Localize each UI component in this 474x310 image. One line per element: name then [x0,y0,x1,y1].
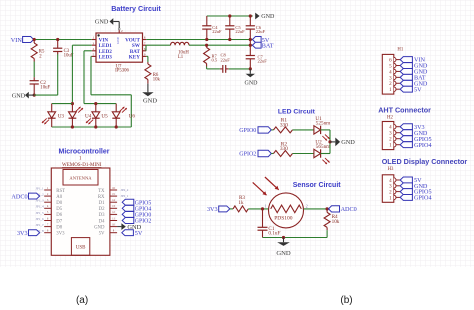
ground flag below R6 [147,84,149,93]
svg-text:JP2_2: JP2_2 [121,188,129,192]
junction sensor gnd [282,236,285,239]
wire C2 gnd to C3 bottom [34,94,58,96]
H1 pin 6 [394,57,396,61]
svg-text:LED Circuit: LED Circuit [278,108,316,115]
svg-text:3V3: 3V3 [56,232,65,237]
svg-text:ADC0: ADC0 [11,193,27,200]
svg-text:OLED Display Connector: OLED Display Connector [382,157,468,166]
wire PDS100 pin2 to ADC0 [304,208,329,210]
junction C6 at 5V row [249,38,252,41]
capacitor C2 [33,77,35,81]
svg-text:10k: 10k [332,219,340,225]
wire sensor bottom rail [326,230,328,237]
junction at C2/GND [33,94,36,97]
net port GPIO4 at H3 pin 1 [400,194,412,200]
svg-text:JP1_5: JP1_5 [36,211,44,215]
net port GPIO4 at H2 pin 1 [400,142,412,148]
wire KEY to R6 [146,55,148,57]
photoresistor PDS100 [269,193,304,228]
net port GPIO4 at MCU [122,205,134,211]
H1 pin 3 [394,75,396,79]
MCU antenna box [63,170,98,186]
wire LED1 net [72,44,91,46]
junction U6 cathode [115,125,118,128]
connector H1 body [382,54,394,94]
svg-text:Microcontroller: Microcontroller [59,148,110,155]
svg-text:L1: L1 [178,55,184,60]
svg-text:GND: GND [341,139,355,146]
svg-text:H3: H3 [388,167,394,172]
ground flag at MCU GND pin [117,226,121,228]
inductor L1 [171,42,189,45]
svg-text:22uF: 22uF [256,29,266,34]
H2 pin 1 [394,143,396,147]
LED U4 [71,104,73,112]
svg-text:GPIO4: GPIO4 [414,142,432,149]
LED U6 [115,104,117,112]
svg-text:3V3: 3V3 [207,206,218,213]
net port GND at H3 pin 3 [400,183,412,189]
H3 pin 3 [394,184,396,188]
net port ADC0 sensor [329,206,340,212]
svg-text:GND: GND [12,93,26,100]
svg-text:GPIO4: GPIO4 [414,195,432,202]
MCU usb box [71,238,89,256]
svg-text:A0: A0 [56,195,62,200]
net port VIN at H1 pin 6 [400,57,412,63]
svg-text:U5: U5 [101,114,108,120]
svg-text:JP1_1: JP1_1 [36,186,44,190]
light arrows into PDS100 [253,182,267,195]
connector H3 body [382,175,394,203]
svg-text:22uF: 22uF [212,29,222,34]
svg-text:1: 1 [265,204,267,208]
svg-text:1k: 1k [238,200,244,206]
H1 pin 2 [394,81,396,85]
junction R7 top [205,44,208,47]
svg-text:D3: D3 [99,213,105,218]
wire cathode rail [52,126,132,128]
svg-text:D1: D1 [99,201,105,206]
svg-text:330: 330 [280,123,288,129]
wire VIN to U7.VIN [34,39,92,41]
wire LED gnd rail [329,130,331,154]
net port 5V [252,37,261,43]
junction U3/U4 anodes [71,102,74,105]
wire U1 cathode [321,129,330,131]
svg-text:GND: GND [95,19,109,26]
wire LED3 net [90,55,93,57]
svg-text:TX: TX [98,189,105,194]
svg-text:22uF: 22uF [221,57,231,62]
wire R7 to C8 [206,67,208,69]
resistor R4 [326,209,328,213]
junction LED gnd [328,140,331,143]
wire 3V3 to R3 [230,208,233,210]
svg-text:BAT: BAT [262,43,274,50]
junction at C3 top [56,38,59,41]
svg-text:Sensor Circuit: Sensor Circuit [293,182,342,189]
net port BAT at H1 pin 3 [400,74,412,80]
ground flag top right [255,13,259,20]
wire LED2 net [84,50,92,52]
H3 pin 4 [394,178,396,182]
svg-text:5V: 5V [99,232,105,237]
wire U2 cathode [321,153,330,155]
svg-text:KEY: KEY [129,54,140,60]
ground flag at C2 [29,94,34,96]
H1 pin 1 [394,87,396,91]
junction U4 cathode [71,125,74,128]
svg-text:10uF: 10uF [40,85,50,90]
wire GPIO2 to R2 [271,153,273,155]
svg-text:D6: D6 [56,213,62,218]
wire BAT pin link [145,45,147,51]
ground flag LED circuit [330,141,335,143]
wire C8 to C7 bottom [229,68,251,70]
junction pin2/R4 [326,207,329,210]
net port 5V at MCU [122,230,134,236]
net port GND at H2 pin 3 [400,130,412,136]
svg-text:D8: D8 [56,225,62,230]
svg-text:ADC0: ADC0 [341,206,357,213]
svg-text:JP1_4: JP1_4 [36,205,44,209]
wire rail U3 anode [52,103,73,105]
IC U7 IP5306 body [96,33,143,62]
capacitor C8 [222,65,224,73]
capacitor C1 [262,209,264,227]
svg-text:GND: GND [94,225,105,230]
svg-text:GND: GND [276,250,291,257]
LED U2 [314,149,321,157]
H2 pin 2 [394,137,396,141]
junction C5 bottom [228,38,231,41]
svg-text:GND: GND [143,97,157,104]
wire SW to L1 [146,44,170,46]
H2 pin 4 [394,125,396,129]
svg-text:GND: GND [116,36,120,43]
wire L1 to BAT port [189,44,252,46]
svg-text:AHT Connector: AHT Connector [378,105,431,114]
svg-text:JP1_7: JP1_7 [36,223,44,227]
svg-text:D7: D7 [56,219,62,224]
svg-text:D5: D5 [56,207,62,212]
resistor R6 [147,62,149,64]
svg-text:GPIO2: GPIO2 [239,152,256,158]
svg-text:D2: D2 [99,207,105,212]
junction C6/C7 [249,44,252,47]
svg-text:LED3: LED3 [99,54,113,60]
net port GPIO5 at H3 pin 2 [400,189,412,195]
H2 pin 3 [394,131,396,135]
net port GPIO5 at MCU [122,199,134,205]
svg-text:3V3: 3V3 [17,230,28,237]
svg-text:GPIO0: GPIO0 [135,213,152,219]
junction C5 top [228,14,231,17]
net port 5V at H3 pin 4 [400,177,412,183]
ground flag sensor [283,238,285,243]
svg-text:ANTENNA: ANTENNA [69,176,92,181]
capacitor C3 [57,40,59,49]
svg-text:0.1uF: 0.1uF [268,231,280,237]
svg-text:10k: 10k [153,78,161,83]
junction U5 anode [94,102,97,105]
connector H2 body [382,122,394,150]
resistor R7 [206,45,208,47]
junction at VIN/R5 [33,38,36,41]
net port GPIO0 at MCU [122,211,134,217]
svg-text:2: 2 [306,204,308,208]
svg-text:22uF: 22uF [258,59,268,64]
svg-text:(b): (b) [340,295,352,305]
svg-text:5V: 5V [414,86,422,93]
MCU left pins [44,189,51,191]
svg-text:GND: GND [245,81,259,87]
U7 right pins [143,39,147,41]
svg-text:5V: 5V [135,230,143,237]
svg-text:VIN: VIN [11,37,23,44]
capacitor C6 [249,16,251,26]
MCU right pins [110,189,117,191]
net port GND at H1 pin 2 [400,80,412,86]
net port GND at H1 pin 4 [400,68,412,74]
svg-text:0.5: 0.5 [212,58,218,63]
svg-text:525nm: 525nm [316,121,330,127]
resistor R3 [233,206,248,212]
junction C4 bottom [205,38,208,41]
H1 pin 5 [394,63,396,67]
svg-text:U3: U3 [58,114,65,120]
MCU U1 WEMOS D1 mini body [51,168,110,255]
svg-text:USB: USB [76,246,86,251]
wire GPIO0 to R1 [271,129,273,131]
svg-text:JP2_1: JP2_1 [121,194,129,198]
junction U5 cathode [94,125,97,128]
svg-text:JP1_6: JP1_6 [36,217,44,221]
U7 left pins [92,39,96,41]
svg-text:Battery Circuit: Battery Circuit [111,4,161,13]
svg-text:GPIO0: GPIO0 [239,128,256,134]
resistor R2 [274,151,293,157]
net port 5V at H1 pin 1 [400,86,412,92]
net port GND at H1 pin 5 [400,63,412,69]
svg-text:D0: D0 [56,201,62,206]
LED U5 [95,104,97,112]
svg-text:PDS100: PDS100 [274,215,293,221]
svg-text:H1: H1 [397,48,403,53]
ground flag below C7 [249,69,251,74]
capacitor C7 [249,45,251,55]
svg-text:330: 330 [280,146,288,152]
svg-text:GPIO4: GPIO4 [135,206,152,212]
svg-text:U6: U6 [129,114,136,120]
capacitor C4 [206,16,208,26]
wire R1 to U1 [293,129,314,131]
LED U1 [314,126,321,134]
net port GPIO2 at MCU [122,218,134,224]
junction R3/C1 [261,207,264,210]
svg-text:565nm: 565nm [316,144,330,150]
gnd rail top [207,15,253,17]
LED U3 [51,104,53,112]
svg-text:(a): (a) [76,295,88,305]
junction C7 bottom [249,67,252,70]
H3 pin 1 [394,195,396,199]
wire R2 to U2 [293,153,314,155]
H3 pin 2 [394,189,396,193]
resistor R5 [33,40,35,44]
wire R3 to PDS100 pin1 [248,208,268,210]
wire R5 to C2 [33,62,35,78]
resistor R1 [274,127,293,133]
wire VOUT to 5V [146,39,252,41]
net port BAT [252,42,261,48]
svg-text:GND: GND [261,14,275,20]
net port 3V3 at H2 pin 4 [400,124,412,130]
net port GPIO5 at H2 pin 2 [400,136,412,142]
H1 pin 4 [394,69,396,73]
svg-text:H2: H2 [387,115,393,120]
U7 top pin 2 [118,30,120,33]
ground flag at U7 pin 2 [113,21,119,23]
svg-text:GPIO5: GPIO5 [135,200,152,206]
svg-text:D4: D4 [99,219,105,224]
junction C6 top [249,14,252,17]
svg-text:RST: RST [56,189,65,194]
svg-text:22uF: 22uF [235,29,245,34]
svg-text:IP5306: IP5306 [115,69,129,74]
svg-text:RX: RX [98,195,105,200]
capacitor C5 [229,16,231,26]
